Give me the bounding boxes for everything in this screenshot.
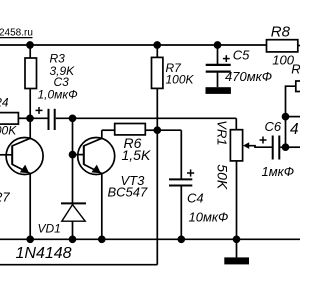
diode VD1 — [61, 118, 86, 239]
resistor R6 — [102, 124, 158, 135]
capacitor C4 (polarized, vertical) — [157, 130, 194, 239]
node junction ground / VD1 — [70, 236, 76, 242]
svg-text:C4: C4 — [187, 191, 204, 206]
wire top supply rail — [0, 44, 267, 46]
svg-text:470мкФ: 470мкФ — [225, 69, 272, 84]
node junction base row — [27, 115, 33, 121]
ground C5 — [206, 87, 231, 94]
wire R8 right stub — [298, 45, 300, 47]
svg-text:2458.ru: 2458.ru — [0, 28, 33, 39]
node junction R6 / R7 column — [154, 127, 160, 133]
svg-text:10мкФ: 10мкФ — [189, 209, 229, 224]
wire collector row to VR1 — [73, 117, 237, 119]
ground symbol bottom — [224, 239, 249, 264]
svg-text:R8: R8 — [271, 24, 291, 41]
node junction ground / VT2 emitter — [27, 236, 33, 242]
svg-text:100K: 100K — [166, 73, 195, 87]
transistor VT2 (cropped label) — [0, 118, 43, 239]
resistor R4 (cropped at left edge) — [0, 113, 30, 125]
node junction right column / C6 — [283, 144, 289, 150]
svg-text:VR1: VR1 — [215, 120, 230, 145]
resistor R3 — [25, 45, 37, 118]
transistor VT3 — [73, 130, 115, 239]
wire right edge column — [286, 86, 301, 148]
svg-text:C6: C6 — [265, 119, 282, 134]
svg-text:100K: 100K — [0, 124, 17, 138]
node junction ground / VR1 — [234, 236, 240, 242]
node junction VD1 / VT3 base — [70, 152, 76, 158]
node junction C3 / VD1 column — [70, 115, 76, 121]
svg-text:1N4148: 1N4148 — [16, 245, 72, 262]
node junction ground / VT3 emitter — [99, 236, 105, 242]
potentiometer VR1 — [230, 118, 272, 239]
node junction top rail / C5 — [215, 42, 221, 48]
wire ground rail bottom — [0, 238, 300, 240]
svg-text:R9: R9 — [291, 61, 300, 76]
svg-text:327: 327 — [0, 190, 10, 205]
wire feedback bottom — [0, 264, 157, 266]
svg-text:R24: R24 — [0, 96, 9, 110]
watermark text 2458.ru — [0, 28, 33, 39]
svg-text:1,0мкФ: 1,0мкФ — [38, 87, 79, 101]
resistor R7 — [152, 45, 163, 265]
svg-text:BC547: BC547 — [108, 184, 149, 199]
resistor R8 — [267, 40, 298, 52]
svg-text:C5: C5 — [233, 48, 250, 63]
node junction top rail / R7 — [154, 42, 160, 48]
svg-text:1мкФ: 1мкФ — [262, 164, 295, 179]
capacitor C6 (polarized, horizontal) — [260, 136, 286, 160]
node junction top rail / R3 — [27, 42, 33, 48]
capacitor C3 (polarized, horizontal) — [30, 107, 73, 130]
resistor R9 (cropped at right edge) — [296, 81, 304, 92]
svg-text:47K: 47K — [290, 121, 300, 138]
capacitor C5 (polarized, vertical) — [206, 45, 231, 87]
svg-text:VD1: VD1 — [38, 221, 61, 235]
node junction right column upper — [283, 114, 289, 120]
node junction ground / C4 — [178, 236, 184, 242]
svg-text:50K: 50K — [215, 164, 231, 190]
svg-text:1,5K: 1,5K — [122, 147, 151, 163]
